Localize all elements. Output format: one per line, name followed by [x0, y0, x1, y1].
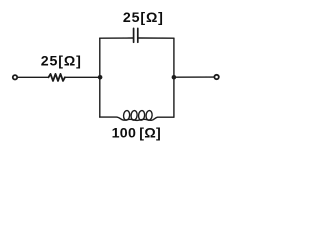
wire node B to right terminal [174, 76, 214, 78]
node B (right junction) [172, 75, 177, 80]
wire left-terminal to resistor [18, 76, 49, 78]
svg-text:25[Ω]: 25[Ω] [123, 10, 164, 26]
wire resistor to node A [65, 76, 100, 78]
wire bottom branch with inductor leads [100, 117, 174, 120]
wire right vertical branch [173, 38, 175, 117]
right terminal [214, 75, 218, 79]
capacitor C 25[ohm] [134, 28, 138, 42]
svg-text:100 [Ω]: 100 [Ω] [112, 126, 161, 142]
inductor L 100[ohm] [123, 110, 152, 120]
wire top branch right of capacitor [139, 37, 174, 39]
left terminal [13, 75, 17, 79]
node A (left junction) [98, 75, 103, 80]
resistor R 25[ohm] [49, 74, 65, 81]
wire top branch left of capacitor [100, 37, 133, 39]
wire left vertical branch [99, 38, 101, 117]
svg-text:25[Ω]: 25[Ω] [41, 54, 82, 70]
